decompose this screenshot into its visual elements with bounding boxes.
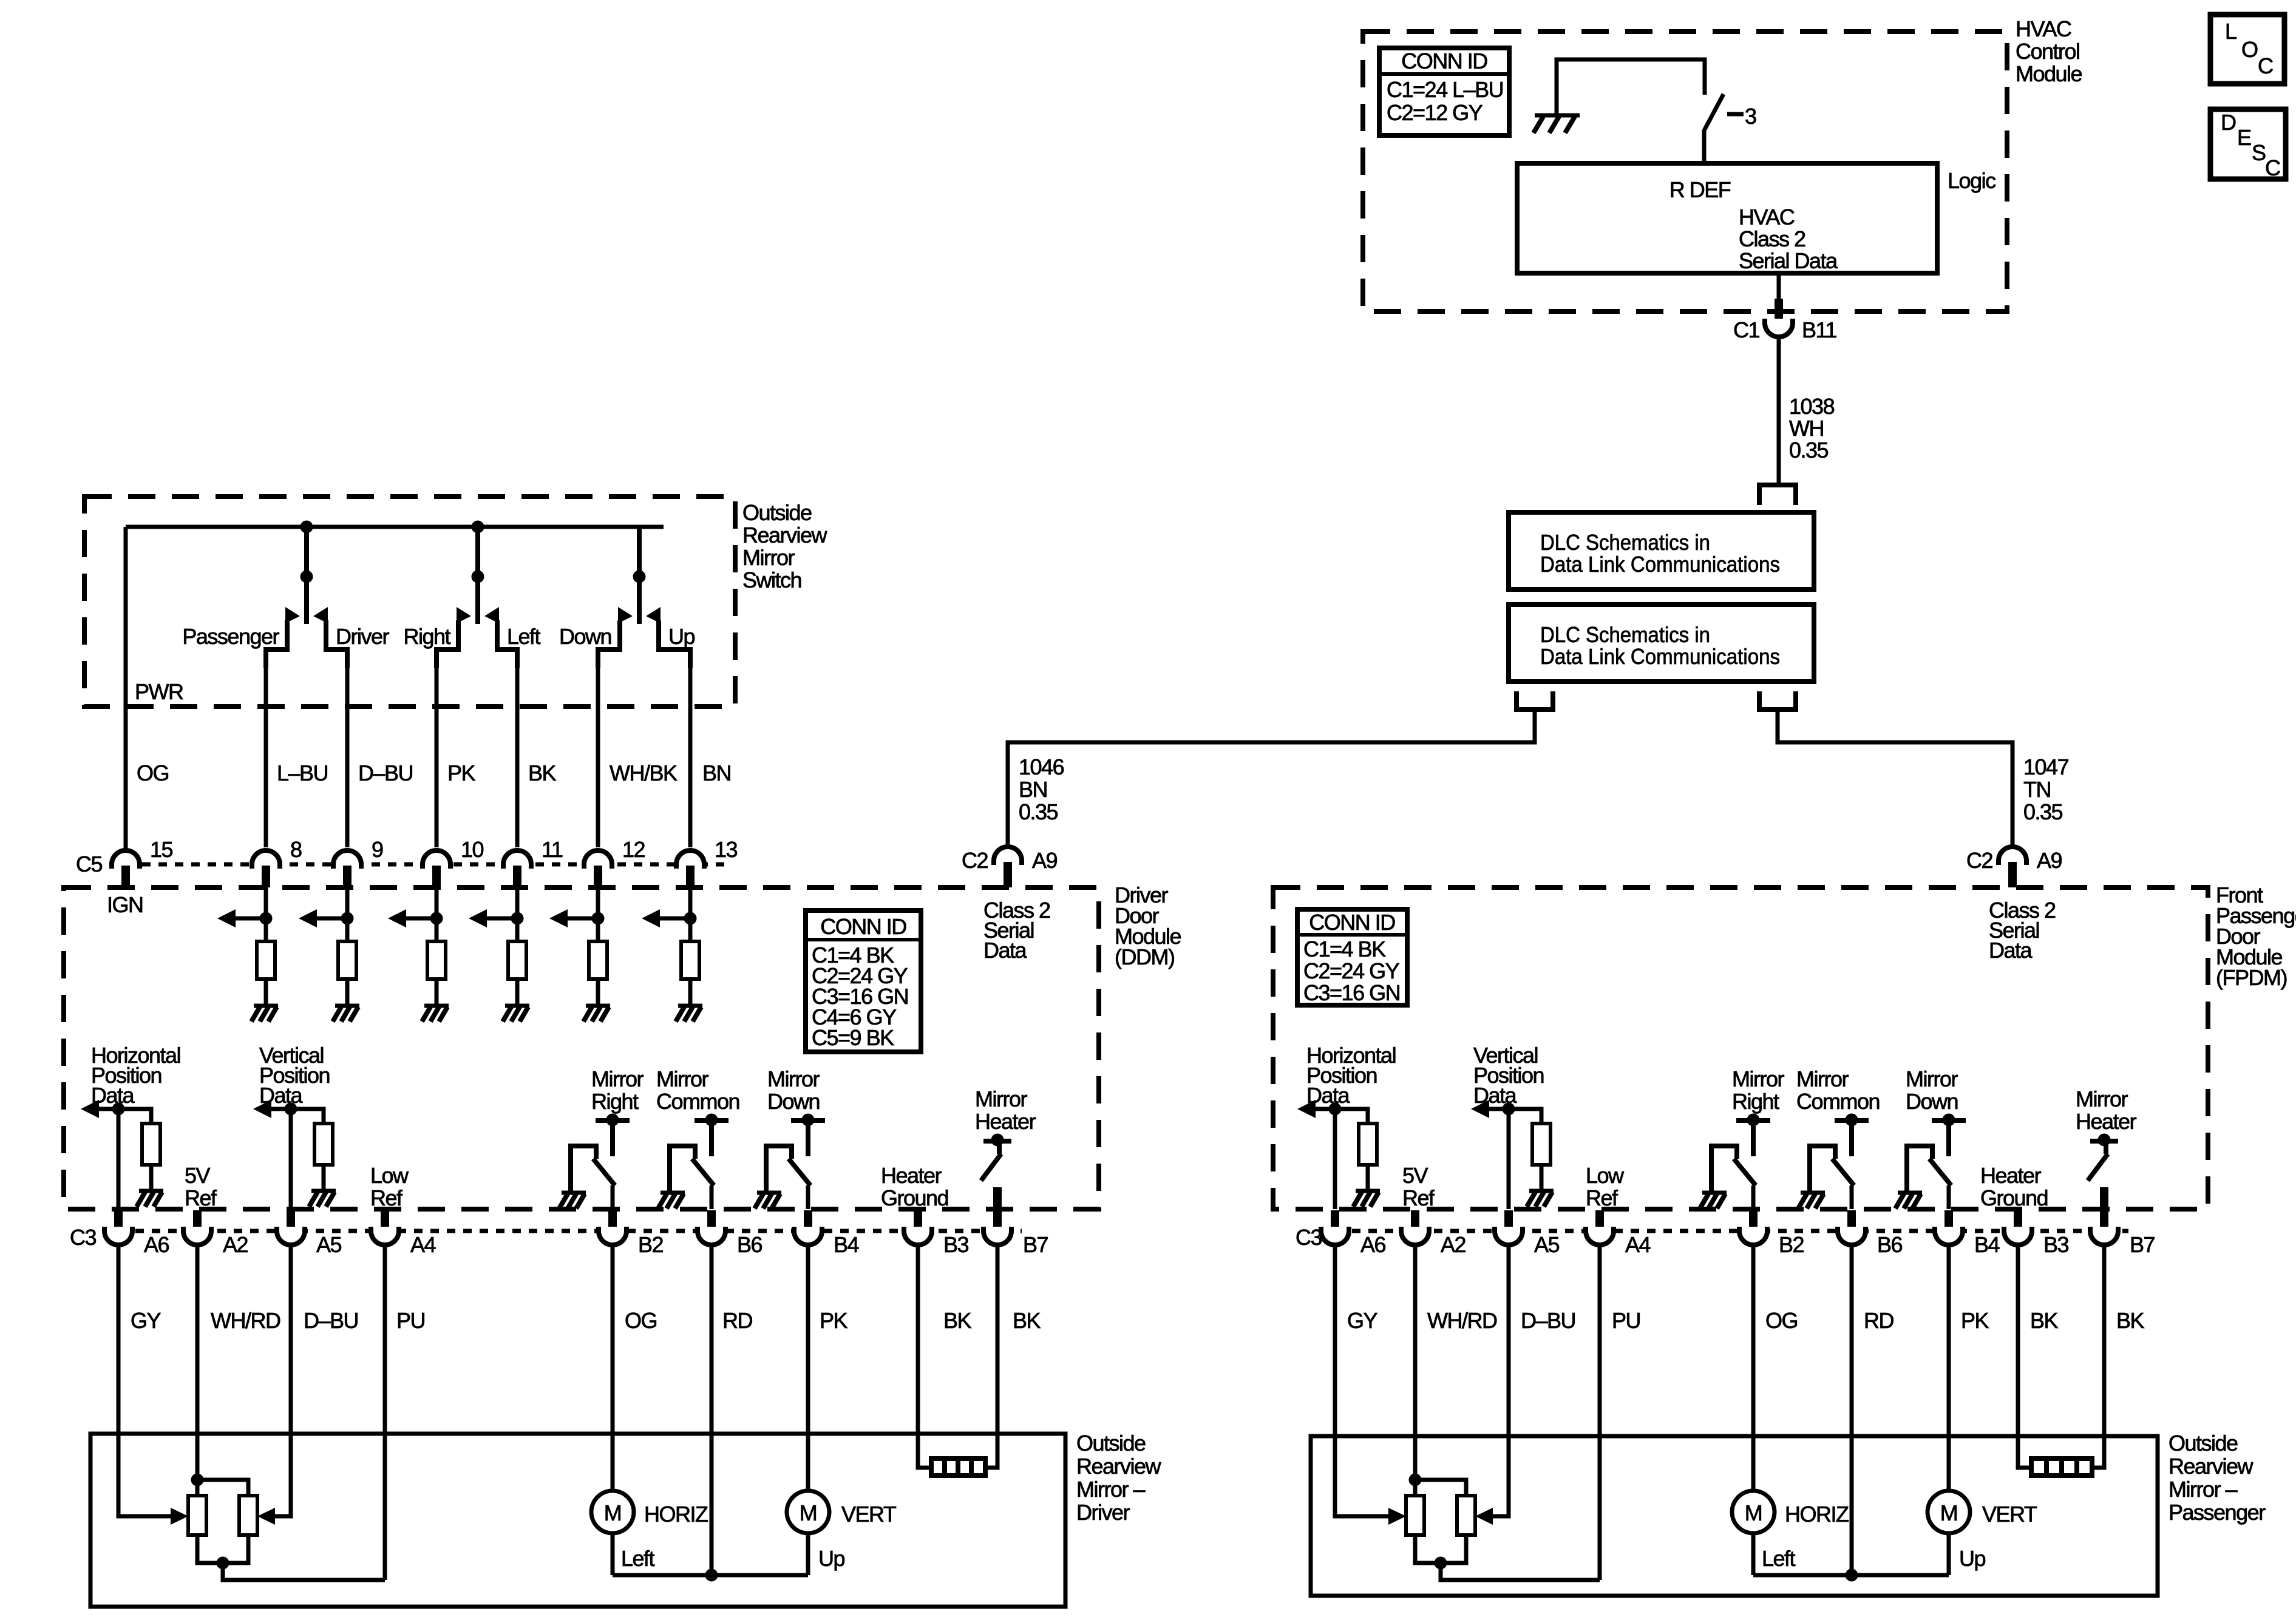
svg-text:Passenger: Passenger <box>182 624 279 649</box>
svg-text:BN: BN <box>1019 777 1047 802</box>
svg-text:OG: OG <box>137 761 169 785</box>
wire BK (heater left) <box>2018 1244 2031 1468</box>
svg-text:B11: B11 <box>1802 317 1836 342</box>
svg-text:PU: PU <box>396 1308 425 1333</box>
connector pin B7 (DDM) <box>983 1210 1048 1257</box>
connector C2 A9 (DDM) <box>962 847 1058 887</box>
connector pin 12 (C5) <box>584 837 645 887</box>
svg-text:Common: Common <box>1796 1089 1880 1114</box>
svg-text:Logic: Logic <box>1948 168 1996 193</box>
CONN ID table (DDM) <box>806 910 921 1052</box>
connector pin A6 (FPDM) <box>1321 1210 1386 1257</box>
ground <box>139 1189 163 1193</box>
mirror heater element <box>931 1459 985 1476</box>
svg-text:5V: 5V <box>1402 1163 1428 1188</box>
wire HORIZ to rail <box>611 1533 615 1575</box>
svg-text:BN: BN <box>702 761 731 785</box>
svg-text:Data Link Communications: Data Link Communications <box>1540 644 1780 669</box>
vertical position data branch <box>253 1100 324 1209</box>
svg-text:15: 15 <box>150 837 173 862</box>
wire PWR down to pin 15 <box>124 527 128 849</box>
wire logic box to connector C1 <box>1777 273 1781 307</box>
svg-text:CONN ID: CONN ID <box>1309 910 1395 935</box>
svg-text:Control: Control <box>2016 39 2080 64</box>
motor M HORIZ <box>591 1491 708 1533</box>
svg-text:S: S <box>2252 140 2266 165</box>
wire switch Right to pin <box>435 654 439 847</box>
svg-text:RD: RD <box>722 1308 752 1333</box>
svg-text:B6: B6 <box>1877 1232 1903 1257</box>
svg-text:PK: PK <box>820 1308 848 1333</box>
ground <box>661 1191 685 1195</box>
bracket from DLC to wire 1046 <box>1517 691 1553 710</box>
wire BK (heater right) <box>2092 1244 2104 1468</box>
connector pin 9 (C5) <box>333 837 383 887</box>
svg-text:D–BU: D–BU <box>1521 1308 1575 1333</box>
svg-text:B2: B2 <box>638 1232 664 1257</box>
HVAC Control Module dashed box <box>1363 32 2007 311</box>
resistor <box>314 1124 333 1165</box>
connector pin A6 (DDM) <box>104 1210 169 1257</box>
svg-text:0.35: 0.35 <box>1019 799 1058 824</box>
svg-text:A5: A5 <box>316 1232 342 1257</box>
connector pin 8 (C5) <box>252 837 302 887</box>
connector pin B3 (FPDM) <box>2004 1210 2069 1257</box>
pull-down circuit at x=985 <box>549 887 604 1004</box>
svg-text:M: M <box>800 1500 817 1525</box>
svg-text:D: D <box>2221 110 2236 135</box>
motor M VERT <box>1927 1491 2037 1533</box>
svg-text:Driver: Driver <box>1076 1500 1130 1525</box>
svg-text:TN: TN <box>2023 777 2051 802</box>
ground <box>757 1191 781 1195</box>
wire 1038 WH 0.35 <box>1777 337 1781 485</box>
resistor <box>1359 1124 1377 1165</box>
switch common stem Down/Up <box>633 527 645 624</box>
svg-text:RD: RD <box>1864 1308 1894 1333</box>
svg-text:C: C <box>2258 53 2273 78</box>
horizontal position data branch <box>1297 1100 1368 1209</box>
wiper arrow left (GY) <box>171 1508 188 1525</box>
svg-text:VERT: VERT <box>1982 1502 2037 1527</box>
svg-text:Rearview: Rearview <box>2169 1454 2254 1479</box>
svg-text:Heater: Heater <box>2076 1109 2137 1134</box>
svg-text:VERT: VERT <box>841 1502 897 1527</box>
svg-text:IGN: IGN <box>107 892 143 917</box>
svg-text:DLC Schematics in: DLC Schematics in <box>1540 622 1710 647</box>
svg-text:L: L <box>2225 19 2237 44</box>
svg-text:D–BU: D–BU <box>358 761 413 785</box>
svg-text:1046: 1046 <box>1019 754 1064 779</box>
connector pin 11 (C5) <box>503 837 563 887</box>
ground <box>1529 1189 1554 1193</box>
svg-text:PWR: PWR <box>135 679 183 704</box>
Driver Door Module dashed box <box>64 887 1099 1209</box>
Outside Rearview Mirror box <box>1311 1436 2158 1596</box>
svg-text:HVAC: HVAC <box>2016 16 2071 41</box>
svg-text:Mirror: Mirror <box>767 1066 820 1091</box>
wiper arrow right (D-BU) <box>1475 1508 1493 1525</box>
wire GY <box>1335 1244 1390 1516</box>
wire 1046 BN 0.35 to DDM <box>1008 710 1535 846</box>
svg-text:CONN ID: CONN ID <box>1401 49 1487 73</box>
wire switch to logic box <box>1702 130 1707 163</box>
switch contact Up <box>646 607 690 668</box>
motor common rail <box>1753 1569 1949 1581</box>
bracket from DLC to wire 1047 <box>1759 691 1796 710</box>
svg-text:Down: Down <box>767 1089 820 1114</box>
CONN ID table (HVAC) <box>1379 48 1509 135</box>
driver switch Mirror Right <box>571 1114 630 1209</box>
svg-text:1047: 1047 <box>2023 754 2069 779</box>
svg-text:M: M <box>1745 1500 1762 1525</box>
ground <box>424 1004 449 1008</box>
pull-down circuit at x=719 <box>388 887 443 1004</box>
svg-text:Outside: Outside <box>2169 1431 2238 1456</box>
svg-text:GY: GY <box>131 1308 161 1333</box>
svg-text:Mirror: Mirror <box>742 545 795 570</box>
svg-text:B7: B7 <box>2130 1232 2155 1257</box>
pull-down circuit at x=852 <box>469 887 523 1004</box>
connector pin 13 (C5) <box>676 837 738 887</box>
ground (HVAC internal) <box>1533 115 1580 133</box>
svg-text:Rearview: Rearview <box>1076 1454 1162 1479</box>
HVAC logic box <box>1517 163 1937 273</box>
svg-text:C5: C5 <box>76 852 102 876</box>
resistor <box>142 1124 160 1165</box>
svg-text:C2=12 GY: C2=12 GY <box>1387 100 1483 125</box>
svg-text:Class 2: Class 2 <box>1739 226 1805 251</box>
wire switch Up to pin <box>688 654 693 847</box>
svg-text:Mirror: Mirror <box>656 1066 708 1091</box>
svg-text:B4: B4 <box>834 1232 859 1257</box>
svg-text:C1: C1 <box>1733 317 1759 342</box>
svg-text:0.35: 0.35 <box>2023 799 2063 824</box>
switch contact Passenger <box>266 607 300 668</box>
svg-text:Rearview: Rearview <box>742 523 828 547</box>
resistor <box>1532 1124 1550 1165</box>
wiper arrow left (GY) <box>1388 1508 1406 1525</box>
connector pin B4 (DDM) <box>794 1210 859 1257</box>
connector pin A5 (FPDM) <box>1495 1210 1560 1257</box>
svg-text:Mirror: Mirror <box>1906 1066 1958 1091</box>
svg-text:Ref: Ref <box>370 1185 403 1210</box>
svg-text:C5=9 BK: C5=9 BK <box>812 1025 894 1050</box>
svg-text:Driver: Driver <box>336 624 390 649</box>
wire RD <box>710 1244 714 1575</box>
motor M HORIZ <box>1732 1491 1849 1533</box>
connector pin A4 (FPDM) <box>1586 1210 1651 1257</box>
power bus wire <box>126 525 664 529</box>
connector pin B2 (DDM) <box>599 1210 664 1257</box>
svg-text:Left: Left <box>507 624 541 649</box>
wire OG <box>611 1244 615 1491</box>
connector pin A4 (DDM) <box>371 1210 436 1257</box>
mirror heater switch <box>2088 1134 2118 1230</box>
svg-text:A4: A4 <box>410 1232 436 1257</box>
connector row C5 dotted line <box>109 863 732 867</box>
wire PK <box>806 1244 810 1491</box>
svg-text:B3: B3 <box>2043 1232 2069 1257</box>
driver switch Mirror Common <box>670 1114 729 1209</box>
mirror heater switch <box>981 1134 1011 1230</box>
svg-text:Serial Data: Serial Data <box>1739 248 1838 273</box>
svg-text:Up: Up <box>818 1546 844 1571</box>
driver switch Mirror Down <box>766 1114 825 1209</box>
svg-text:PK: PK <box>447 761 476 785</box>
switch contact Left <box>484 607 517 668</box>
connector pin B3 (DDM) <box>904 1210 969 1257</box>
wire BK (heater right) <box>985 1244 997 1468</box>
connector pin B7 (FPDM) <box>2090 1210 2155 1257</box>
svg-text:WH/RD: WH/RD <box>211 1308 280 1333</box>
switch common stem Right/Left <box>472 521 484 624</box>
resistor <box>681 941 699 979</box>
svg-text:Ground: Ground <box>881 1185 948 1210</box>
svg-text:Ref: Ref <box>1402 1185 1435 1210</box>
svg-text:3: 3 <box>1745 104 1756 129</box>
ground <box>1898 1191 1922 1195</box>
connector pin A5 (DDM) <box>277 1210 342 1257</box>
svg-text:A4: A4 <box>1625 1232 1651 1257</box>
position sensor potentiometer <box>191 1474 248 1496</box>
svg-text:CONN ID: CONN ID <box>820 914 906 939</box>
wire switch Left to pin <box>515 654 520 847</box>
connector pin A2 (DDM) <box>183 1210 248 1257</box>
ground <box>311 1189 336 1193</box>
svg-text:Up: Up <box>668 624 695 649</box>
svg-text:C3=16 GN: C3=16 GN <box>1303 980 1400 1005</box>
svg-text:BK: BK <box>1013 1308 1041 1333</box>
svg-text:Common: Common <box>656 1089 739 1114</box>
ground <box>1702 1191 1727 1195</box>
svg-text:A6: A6 <box>1360 1232 1386 1257</box>
svg-text:Mirror: Mirror <box>1796 1066 1849 1091</box>
pot bottom wires <box>197 1535 385 1580</box>
resistor <box>508 941 526 979</box>
svg-text:HORIZ: HORIZ <box>1785 1502 1849 1527</box>
svg-text:D–BU: D–BU <box>304 1308 358 1333</box>
wire GY <box>118 1244 172 1516</box>
svg-text:C2=24 GY: C2=24 GY <box>1303 958 1400 983</box>
svg-text:C3: C3 <box>70 1225 96 1250</box>
svg-text:WH/BK: WH/BK <box>610 761 678 785</box>
switch contact Right <box>436 607 471 668</box>
Outside Rearview Mirror Switch dashed box <box>84 497 735 707</box>
pull-down circuit at x=438 <box>217 887 272 1004</box>
ground <box>335 1004 359 1008</box>
resistor <box>427 941 446 979</box>
svg-text:Ground: Ground <box>1980 1185 2048 1210</box>
wire 1047 TN 0.35 to FPDM <box>1778 710 2012 846</box>
svg-text:10: 10 <box>461 837 484 862</box>
svg-text:HVAC: HVAC <box>1739 205 1795 229</box>
svg-text:A2: A2 <box>223 1232 248 1257</box>
wire <box>322 1165 326 1191</box>
wire WH/RD <box>1413 1244 1418 1480</box>
svg-text:BK: BK <box>943 1308 972 1333</box>
svg-text:Down: Down <box>1906 1089 1958 1114</box>
pull-down circuit at x=572 <box>299 887 353 1004</box>
svg-text:5V: 5V <box>185 1163 211 1188</box>
svg-text:Outside: Outside <box>742 500 812 525</box>
svg-text:R DEF: R DEF <box>1669 177 1731 202</box>
switch contact Driver <box>313 607 347 668</box>
svg-text:Up: Up <box>1959 1546 1985 1571</box>
svg-text:Left: Left <box>1762 1546 1796 1571</box>
svg-text:PK: PK <box>1961 1308 1989 1333</box>
svg-text:A6: A6 <box>144 1232 169 1257</box>
svg-text:A9: A9 <box>1032 848 1058 873</box>
svg-text:E: E <box>2237 125 2251 150</box>
svg-text:BK: BK <box>2116 1308 2145 1333</box>
Front Passenger Door Module dashed box <box>1273 887 2208 1209</box>
svg-text:Right: Right <box>591 1089 639 1114</box>
wire WH/RD <box>195 1244 200 1480</box>
svg-text:Right: Right <box>403 624 450 649</box>
wire VERT to rail <box>1947 1533 1951 1575</box>
ground <box>678 1004 702 1008</box>
ground <box>586 1004 610 1008</box>
svg-text:C2: C2 <box>962 848 988 873</box>
svg-text:A2: A2 <box>1441 1232 1466 1257</box>
driver switch Mirror Right <box>1711 1114 1770 1209</box>
switch contact Down <box>598 607 633 668</box>
svg-text:Outside: Outside <box>1076 1431 1146 1456</box>
connector pin B2 (FPDM) <box>1739 1210 1804 1257</box>
svg-text:Mirror: Mirror <box>975 1086 1027 1111</box>
connector pin B4 (FPDM) <box>1935 1210 2000 1257</box>
wire PU <box>1598 1244 1602 1580</box>
connector pin B6 (FPDM) <box>1838 1210 1903 1257</box>
connector pin A2 (FPDM) <box>1401 1210 1466 1257</box>
svg-text:Mirror –: Mirror – <box>1076 1477 1145 1502</box>
pot bottom wires <box>1415 1535 1600 1580</box>
svg-text:(FPDM): (FPDM) <box>2216 965 2287 990</box>
wire PK <box>1947 1244 1951 1491</box>
svg-text:Low: Low <box>1586 1163 1625 1188</box>
driver switch Mirror Common <box>1810 1114 1869 1209</box>
svg-text:Heater: Heater <box>975 1109 1036 1134</box>
svg-text:WH/RD: WH/RD <box>1427 1308 1497 1333</box>
pot resistor right <box>1457 1496 1475 1535</box>
svg-text:B4: B4 <box>1974 1232 2000 1257</box>
svg-text:Low: Low <box>370 1163 409 1188</box>
svg-text:OG: OG <box>1765 1308 1798 1333</box>
svg-text:B2: B2 <box>1779 1232 1804 1257</box>
wire HORIZ to rail <box>1751 1533 1756 1575</box>
connector row C3 dotted line (FPDM) <box>1319 1229 2128 1233</box>
motor common rail <box>613 1569 808 1581</box>
svg-text:M: M <box>604 1500 622 1525</box>
DESC legend box <box>2210 109 2286 180</box>
in-line bracket to DLC box <box>1759 485 1796 505</box>
svg-text:A5: A5 <box>1534 1232 1560 1257</box>
wiper arrow right (D-BU) <box>257 1508 275 1525</box>
resistor <box>589 941 607 979</box>
svg-text:B6: B6 <box>737 1232 763 1257</box>
pot resistor left <box>1406 1496 1424 1535</box>
svg-text:Data Link Communications: Data Link Communications <box>1540 552 1780 577</box>
ground <box>1801 1191 1825 1195</box>
svg-text:L–BU: L–BU <box>277 761 328 785</box>
svg-text:C3: C3 <box>1296 1225 1322 1250</box>
svg-text:Mirror –: Mirror – <box>2169 1477 2237 1502</box>
svg-text:B3: B3 <box>943 1232 969 1257</box>
svg-text:11: 11 <box>542 837 563 862</box>
svg-text:Heater: Heater <box>881 1163 942 1188</box>
svg-text:Module: Module <box>2016 61 2082 86</box>
LOC legend box <box>2210 15 2284 84</box>
svg-text:Data: Data <box>983 938 1028 963</box>
svg-text:12: 12 <box>622 837 645 862</box>
ground <box>1356 1189 1380 1193</box>
connector C1 B11 <box>1733 299 1836 342</box>
connector C2 A9 (FPDM) <box>1966 847 2062 887</box>
svg-text:C1=4 BK: C1=4 BK <box>1303 937 1386 961</box>
pot resistor right <box>239 1496 257 1535</box>
connector row C3 dotted line (DDM) <box>103 1229 1022 1233</box>
driver switch Mirror Down <box>1907 1114 1966 1209</box>
svg-text:0.35: 0.35 <box>1789 438 1829 463</box>
svg-text:(DDM): (DDM) <box>1115 944 1174 969</box>
svg-text:Heater: Heater <box>1980 1163 2042 1188</box>
svg-text:Right: Right <box>1732 1089 1779 1114</box>
svg-text:Left: Left <box>621 1546 655 1571</box>
svg-text:WH: WH <box>1789 416 1824 441</box>
svg-text:13: 13 <box>715 837 738 862</box>
wire D-BU <box>274 1244 291 1516</box>
pull-down circuit at x=1137 <box>642 887 696 1004</box>
svg-text:PU: PU <box>1612 1308 1640 1333</box>
svg-text:9: 9 <box>372 837 383 862</box>
svg-text:O: O <box>2241 37 2258 62</box>
svg-text:1038: 1038 <box>1789 394 1835 419</box>
vertical position data branch <box>1471 1100 1541 1209</box>
wire RD <box>1850 1244 1854 1575</box>
wire <box>1540 1165 1544 1191</box>
svg-text:C1=24 L–BU: C1=24 L–BU <box>1387 77 1503 102</box>
wire switch Driver to pin <box>345 654 350 847</box>
svg-text:M: M <box>1940 1500 1958 1525</box>
wire D-BU <box>1492 1244 1509 1516</box>
wire BK (heater left) <box>918 1244 931 1468</box>
resistor <box>338 941 356 979</box>
svg-text:DLC Schematics in: DLC Schematics in <box>1540 530 1710 555</box>
ground <box>254 1004 278 1008</box>
wire switch Down to pin <box>596 654 600 847</box>
resistor <box>257 941 275 979</box>
svg-text:BK: BK <box>2030 1308 2059 1333</box>
pot resistor left <box>188 1496 206 1535</box>
svg-text:Mirror: Mirror <box>1732 1066 1784 1091</box>
svg-text:Down: Down <box>559 624 611 649</box>
svg-text:GY: GY <box>1347 1308 1378 1333</box>
svg-text:Ref: Ref <box>1586 1185 1618 1210</box>
connector pin 10 (C5) <box>423 837 484 887</box>
svg-text:C2: C2 <box>1966 848 1992 873</box>
svg-text:B7: B7 <box>1023 1232 1048 1257</box>
svg-text:A9: A9 <box>2037 848 2062 873</box>
wire VERT to rail <box>806 1533 810 1575</box>
svg-text:Passenger: Passenger <box>2169 1500 2266 1525</box>
horizontal position data branch <box>81 1100 151 1209</box>
CONN ID table (FPDM) <box>1297 909 1407 1005</box>
svg-text:Mirror: Mirror <box>2076 1086 2128 1111</box>
Outside Rearview Mirror box <box>90 1434 1065 1607</box>
mirror heater element <box>2031 1459 2092 1476</box>
svg-text:Switch: Switch <box>742 568 801 592</box>
